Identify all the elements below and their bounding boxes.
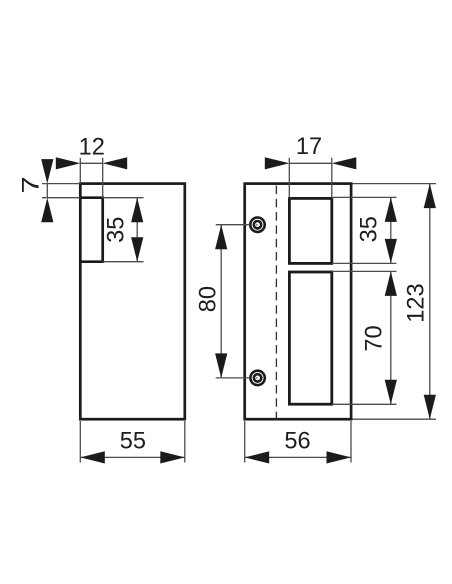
svg-text:35: 35 <box>356 216 382 242</box>
right view body outline <box>245 184 351 420</box>
dimension 123 arrow up <box>424 184 436 209</box>
dimension 7 arrow bottom <box>41 198 53 223</box>
dimension 55 extension line right <box>184 421 186 463</box>
dimension 35 right line <box>390 197 392 263</box>
dimension 80 arrow up <box>215 225 227 250</box>
dimension 35 left extension line bottom <box>103 261 144 263</box>
dimension 55 arrow left <box>80 451 105 463</box>
svg-text:17: 17 <box>296 134 322 160</box>
dimension 80 line <box>220 225 222 378</box>
dimension 12 extension line left <box>79 158 81 184</box>
dimension 123 line <box>429 184 431 420</box>
dimension 55 extension line left <box>79 421 81 463</box>
dimension 123 extension line top <box>353 183 437 185</box>
svg-text:35: 35 <box>103 217 129 243</box>
svg-text:56: 56 <box>284 429 310 455</box>
svg-text:12: 12 <box>79 134 105 160</box>
dimension 35 left arrow down <box>131 237 143 262</box>
dimension 7 extension line top <box>42 183 80 185</box>
dimension 56 arrow left <box>245 451 270 463</box>
screw hole bottom center mark <box>256 377 258 379</box>
svg-text:55: 55 <box>120 429 146 455</box>
dimension 123 arrow down <box>424 395 436 420</box>
dimension 70 line <box>390 271 392 404</box>
dimension 12 extension line right <box>102 158 104 198</box>
dimension 7 line <box>46 184 48 198</box>
dimension 35 left arrow up <box>131 198 143 223</box>
dimension 123 extension line bottom <box>353 418 437 420</box>
dimension 17 extension line left <box>288 158 290 199</box>
screw hole top outer <box>250 218 264 232</box>
right view bend dashed line <box>275 186 277 419</box>
dimension 70 arrow up <box>385 271 397 296</box>
dimension 70 arrow down <box>385 380 397 405</box>
dimension 55 line <box>80 456 185 458</box>
dimension 12 arrow right <box>103 157 128 169</box>
dimension 7 extension line bottom <box>42 197 80 199</box>
dimension 56 line <box>245 456 351 458</box>
left view body outline <box>80 184 185 420</box>
screw hole bottom inner <box>254 374 261 381</box>
dimension 56 arrow right <box>327 451 352 463</box>
right view lower cutout <box>289 272 331 404</box>
dimension 35 left line <box>136 198 138 262</box>
dimension 17 arrow left <box>265 157 290 169</box>
svg-text:123: 123 <box>403 283 429 322</box>
right view upper cutout <box>289 198 331 263</box>
svg-text:80: 80 <box>196 286 222 312</box>
screw hole top inner <box>254 221 261 228</box>
dimension 56 extension line right <box>350 421 352 463</box>
dimension 80 extension line top <box>216 224 250 226</box>
screw hole top center mark <box>256 224 258 226</box>
dimension 35 right arrow up <box>385 197 397 222</box>
dimension 55 arrow right <box>160 451 185 463</box>
dimension 80 arrow down <box>215 353 227 378</box>
svg-text:70: 70 <box>362 325 388 351</box>
dimension 17 extension line right <box>331 158 333 199</box>
dimension 35 left extension line top <box>103 197 144 199</box>
dimension 70 extension line top <box>332 270 397 272</box>
left view lip notch <box>80 198 102 262</box>
screw hole bottom outer <box>250 371 264 385</box>
dimension 7 arrow top <box>41 159 53 184</box>
dimension 80 extension line bottom <box>216 377 250 379</box>
dimension 17 arrow right <box>332 157 357 169</box>
dimension 35 right arrow down <box>385 239 397 264</box>
dimension 17 line <box>289 162 332 164</box>
dimension 35 right extension line bottom <box>332 262 397 264</box>
dimension 12 line <box>80 162 102 164</box>
svg-text:7: 7 <box>17 176 43 193</box>
dimension 12 arrow left <box>56 157 81 169</box>
dimension 35 right extension line top <box>332 196 397 198</box>
dimension 56 extension line left <box>244 421 246 463</box>
dimension 70 extension line bottom <box>332 403 397 405</box>
